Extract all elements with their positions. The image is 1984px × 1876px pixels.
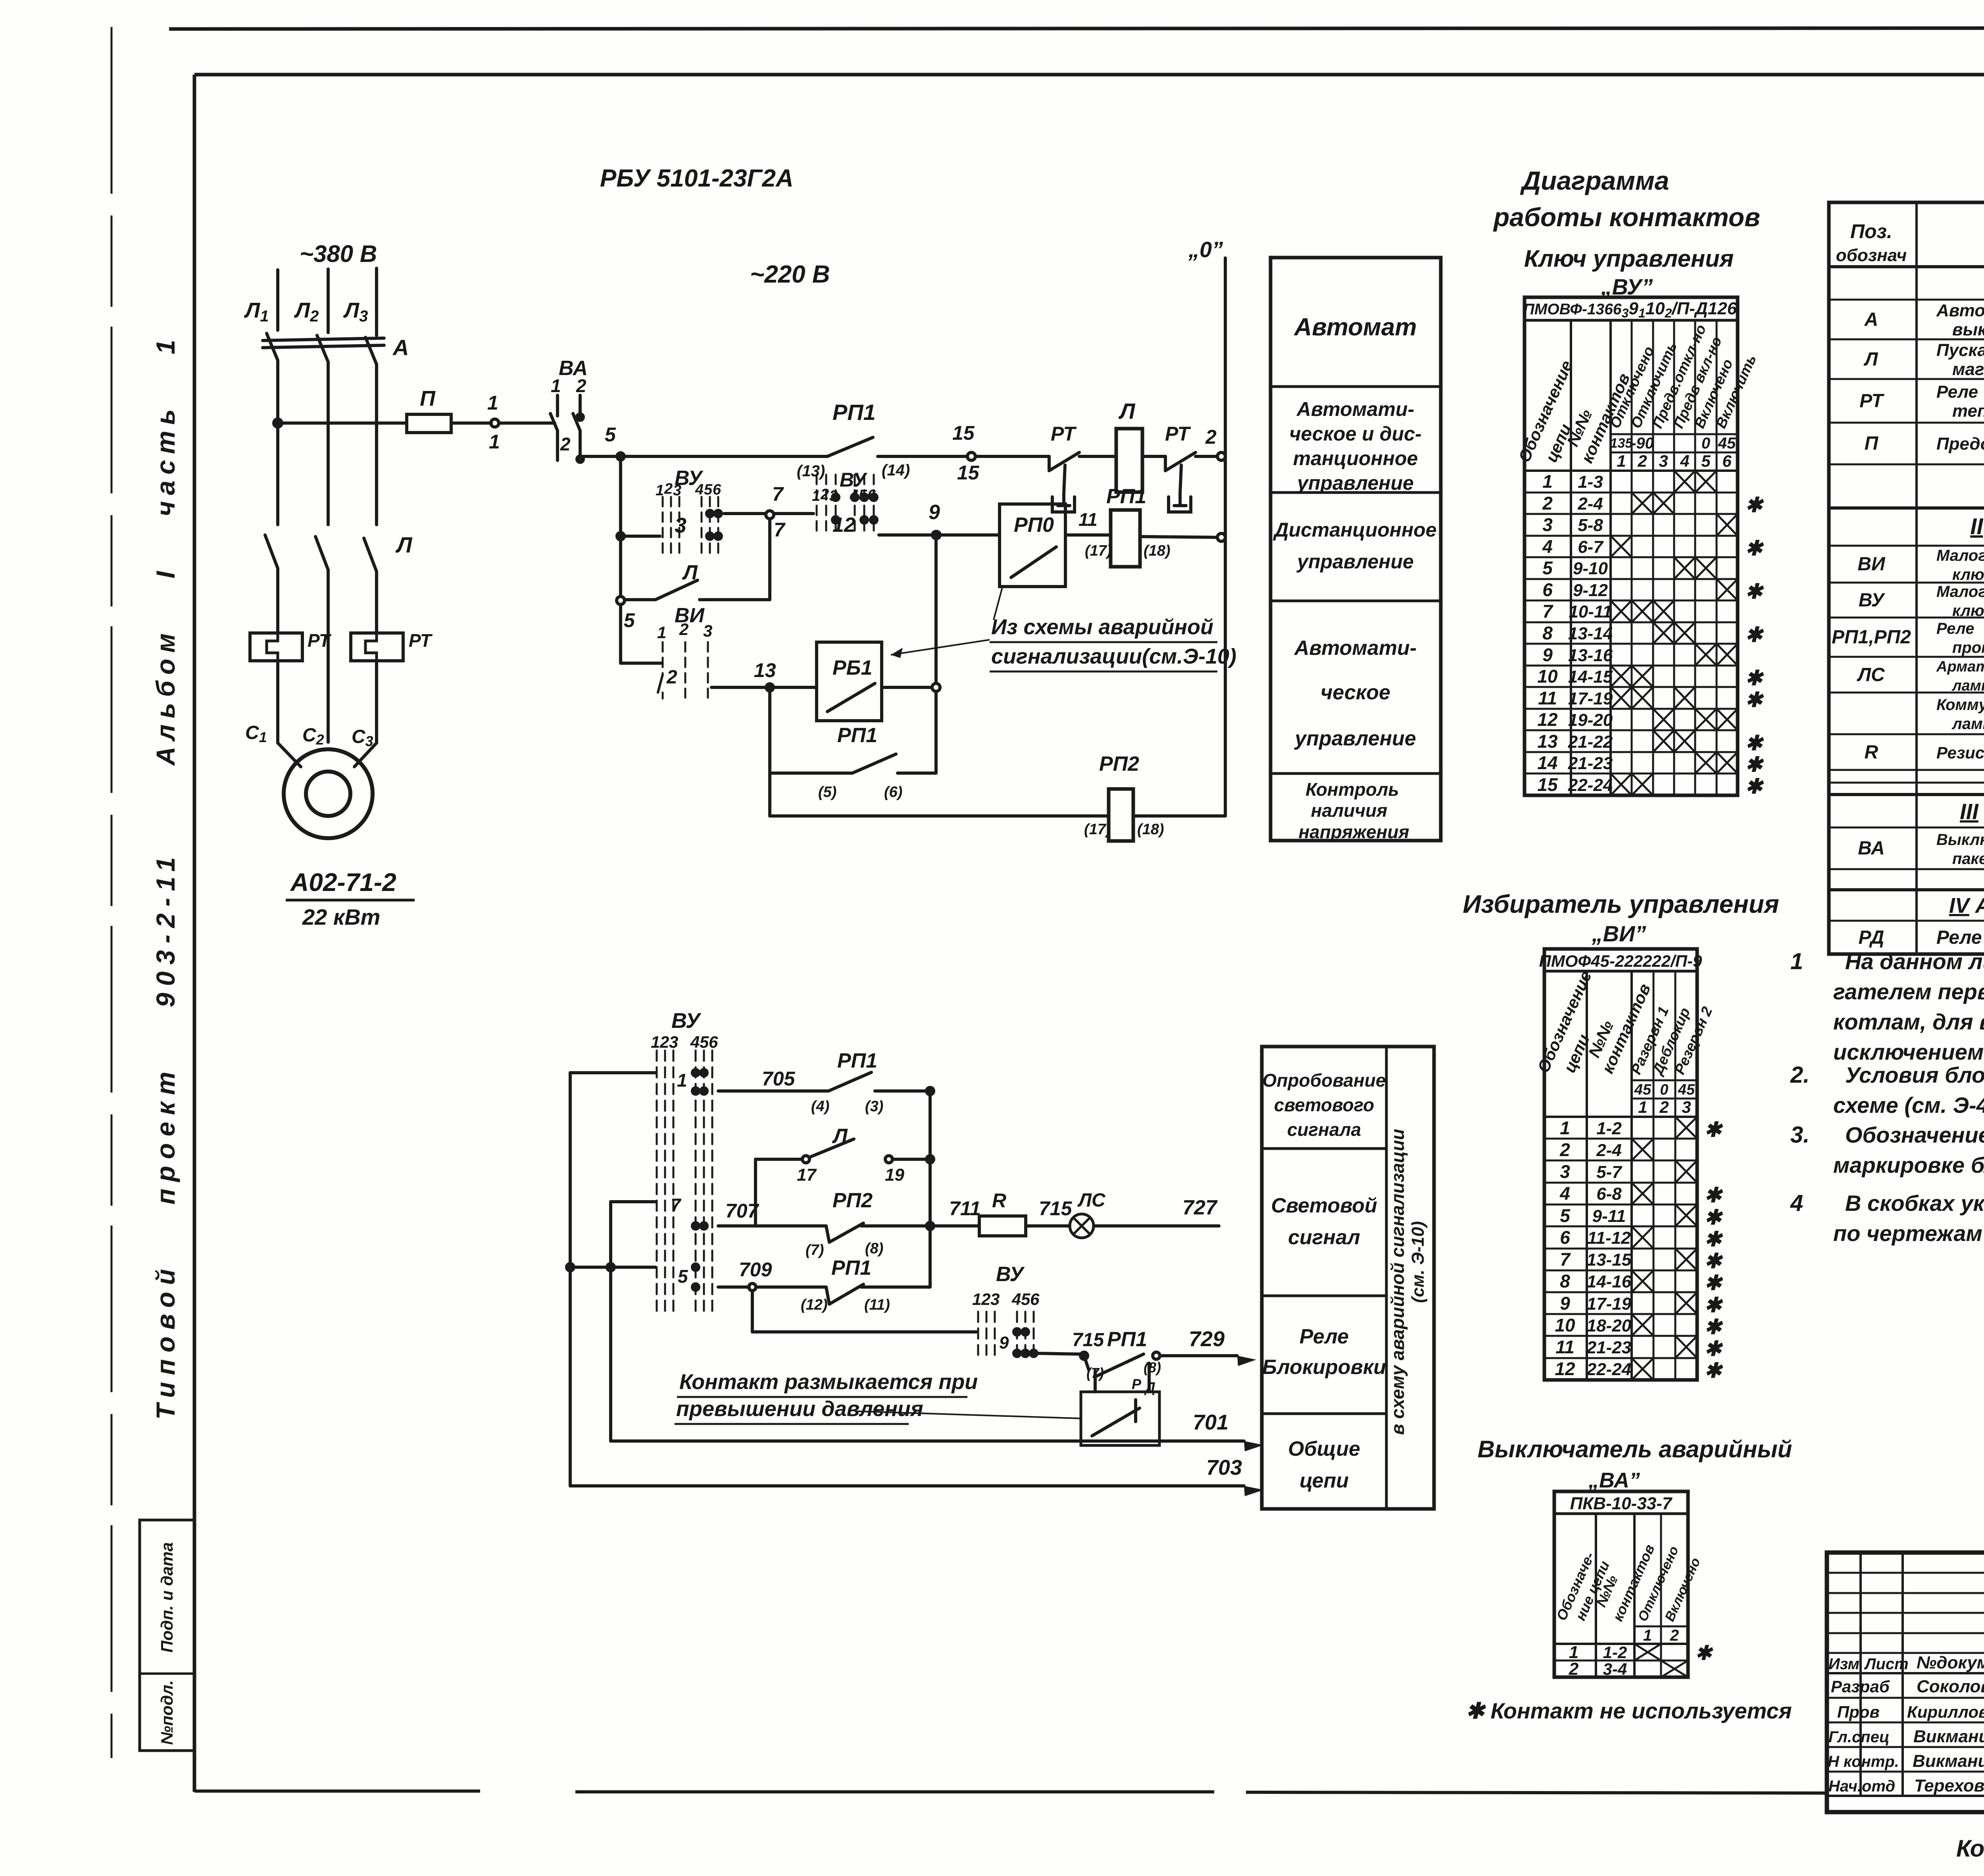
ВУ table frame (1525, 297, 1738, 795)
svg-text:R: R (1865, 742, 1878, 763)
svg-text:✱: ✱ (1745, 580, 1764, 603)
svg-text:Нач.отд: Нач.отд (1828, 1778, 1895, 1795)
svg-text:Терехов: Терехов (1914, 1776, 1984, 1795)
svg-text:✱: ✱ (1745, 623, 1764, 646)
svg-text:5: 5 (1542, 558, 1553, 578)
wire 707 row from ВУ (611, 1200, 656, 1203)
svg-text:3: 3 (990, 1290, 1000, 1308)
sheet inner frame left border (193, 75, 196, 1792)
svg-text:Р: Р (1132, 1376, 1142, 1392)
svg-text:6: 6 (1542, 579, 1553, 600)
svg-text:3: 3 (1560, 1161, 1570, 1182)
contactor coil Л (1116, 429, 1142, 492)
svg-text:Из схемы аварийной: Из схемы аварийной (991, 615, 1213, 639)
svg-text:3: 3 (703, 621, 712, 640)
svg-text:ПКВ-10-33-7: ПКВ-10-33-7 (1570, 1494, 1673, 1513)
svg-text:РБУ 5101-23Г2А: РБУ 5101-23Г2А (600, 165, 794, 192)
svg-text:703: 703 (1206, 1456, 1242, 1480)
wire 709 row from rail (570, 1266, 656, 1269)
svg-text:4: 4 (695, 481, 704, 498)
svg-text:Реле: Реле (1936, 382, 1978, 402)
svg-text:22-24: 22-24 (1586, 1360, 1632, 1379)
motor lead C3 (354, 743, 377, 767)
svg-text:Контроль: Контроль (1305, 779, 1399, 800)
svg-text:сигнала: сигнала (1287, 1119, 1361, 1140)
svg-text:21-22: 21-22 (1568, 732, 1613, 752)
svg-text:✱: ✱ (1704, 1272, 1723, 1295)
svg-text:управление: управление (1296, 472, 1414, 494)
phase bus Л3 (375, 268, 378, 335)
svg-text:5: 5 (605, 423, 616, 446)
selector ВИ contact group (663, 642, 708, 698)
svg-text:15: 15 (952, 422, 975, 444)
svg-text:(5): (5) (818, 784, 836, 800)
svg-text:(12): (12) (801, 1297, 828, 1313)
left control rail node 5 (617, 453, 624, 460)
svg-text:✱: ✱ (1704, 1228, 1723, 1251)
svg-text:Л: Л (1118, 398, 1136, 423)
svg-text:Общие: Общие (1288, 1437, 1360, 1460)
vertical node9 to РП1(5)(6) (934, 535, 938, 683)
svg-text:14-15: 14-15 (1568, 667, 1613, 687)
title block left sub-table verticals (1859, 1553, 1862, 1796)
sheet outer left dashed border (111, 27, 113, 1758)
svg-text:15: 15 (1537, 774, 1558, 795)
svg-text:19-20: 19-20 (1568, 710, 1613, 730)
svg-text:1: 1 (551, 375, 561, 396)
svg-text:11: 11 (1555, 1337, 1575, 1357)
svg-text:ВА: ВА (1858, 838, 1885, 859)
svg-text:45: 45 (1678, 1081, 1695, 1098)
svg-text:19: 19 (885, 1165, 904, 1185)
svg-text:РП1: РП1 (1106, 485, 1146, 508)
svg-text:танционное: танционное (1293, 447, 1418, 469)
inner vertical to 701 (609, 1202, 612, 1441)
contact Л self-holding (617, 596, 625, 604)
svg-text:2: 2 (560, 434, 571, 454)
svg-text:9: 9 (929, 501, 940, 524)
svg-text:Автомати-: Автомати- (1296, 398, 1414, 420)
svg-text:3: 3 (1659, 452, 1668, 470)
svg-text:✱: ✱ (1704, 1359, 1723, 1382)
key ВУ contact group (signal) (657, 1051, 712, 1314)
wire node7 to ВУ group 2 (774, 512, 813, 515)
svg-text:цепи: цепи (1300, 1469, 1349, 1492)
svg-text:45: 45 (1718, 435, 1736, 452)
svg-text:1: 1 (972, 1290, 981, 1308)
svg-text:✱: ✱ (1704, 1206, 1723, 1229)
wire to 727 (1094, 1224, 1219, 1228)
wire 705 row (718, 1089, 829, 1093)
svg-text:✱: ✱ (1745, 753, 1764, 776)
svg-text:5: 5 (624, 609, 635, 631)
svg-text:Условия блокировки даны в функ: Условия блокировки даны в функциональной (1845, 1062, 1984, 1087)
function label column (lower) (1262, 1047, 1434, 1509)
relay coil РП1 (1111, 510, 1140, 567)
svg-text:ВУ: ВУ (671, 1009, 702, 1033)
svg-text:3: 3 (1542, 514, 1553, 535)
svg-text:Л: Л (832, 1125, 848, 1148)
svg-text:Выключатель аварийный: Выключатель аварийный (1478, 1436, 1792, 1462)
svg-text:1: 1 (812, 488, 820, 504)
right rail 0 (1224, 258, 1227, 816)
pressure relay РД box (1081, 1392, 1159, 1445)
svg-text:Н контр.: Н контр. (1828, 1753, 1899, 1770)
svg-text:45: 45 (1634, 1081, 1651, 1098)
signal lamp ЛС (1070, 1214, 1094, 1238)
svg-text:Л: Л (395, 532, 413, 557)
svg-text:управление: управление (1294, 727, 1416, 750)
thermal contact РТ 2 (1164, 456, 1167, 471)
thermal relay РТ heater 2 (351, 633, 403, 661)
svg-text:Малогабаритный: Малогабаритный (1936, 583, 1984, 600)
svg-text:2: 2 (981, 1290, 990, 1308)
svg-text:В скобках указаны номера конта: В скобках указаны номера контактов реле (1845, 1191, 1984, 1216)
svg-text:10-11: 10-11 (1569, 602, 1612, 621)
svg-text:3: 3 (673, 482, 681, 499)
phase bus Л1 (276, 270, 279, 330)
svg-text:Автомат: Автомат (1293, 314, 1417, 341)
svg-text:5: 5 (700, 1033, 709, 1051)
svg-text:6: 6 (1560, 1227, 1570, 1248)
circuit breaker A blades (267, 333, 278, 360)
svg-text:13-16: 13-16 (1568, 646, 1613, 665)
svg-text:РП1: РП1 (831, 1256, 871, 1280)
svg-text:4: 4 (1011, 1290, 1021, 1308)
svg-text:1-2: 1-2 (1603, 1643, 1627, 1662)
svg-text:А: А (1864, 309, 1878, 330)
svg-text:сигнализации(см.Э-10): сигнализации(см.Э-10) (991, 645, 1236, 668)
svg-text:РД: РД (1859, 927, 1884, 948)
svg-text:7: 7 (774, 519, 786, 541)
svg-text:обознач: обознач (1836, 246, 1907, 265)
left margin inventory box (140, 1520, 194, 1751)
svg-text:(18): (18) (1137, 821, 1164, 838)
junction vertical (929, 1091, 932, 1287)
svg-text:Реле: Реле (1300, 1325, 1349, 1348)
svg-text:РТ: РТ (409, 630, 433, 651)
svg-text:10: 10 (1537, 666, 1558, 687)
svg-text:715: 715 (1072, 1330, 1104, 1351)
svg-text:5: 5 (859, 487, 867, 504)
svg-text:РП1,РП2: РП1,РП2 (1832, 627, 1911, 648)
svg-text:9: 9 (1560, 1293, 1570, 1314)
svg-text:маркировке блока управления.: маркировке блока управления. (1833, 1153, 1984, 1178)
svg-text:5: 5 (1701, 452, 1711, 470)
svg-text:светового: светового (1274, 1095, 1374, 1115)
svg-text:2: 2 (1559, 1139, 1570, 1160)
svg-text:18-20: 18-20 (1587, 1316, 1632, 1335)
svg-text:по чертежам КИП: по чертежам КИП (1833, 1221, 1984, 1246)
svg-text:✱: ✱ (1745, 775, 1764, 798)
rail to ВИ branch (619, 604, 622, 663)
svg-text:22 кВт: 22 кВт (302, 904, 380, 929)
bottom schematic left rail (569, 1073, 572, 1486)
svg-text:Пускатель: Пускатель (1936, 341, 1984, 360)
svg-text:сигнал: сигнал (1288, 1226, 1360, 1249)
svg-text:1: 1 (1643, 1627, 1652, 1644)
wire РТ to motor (276, 661, 279, 743)
svg-text:Викманис: Викманис (1913, 1751, 1984, 1771)
svg-text:8: 8 (1542, 623, 1553, 643)
wire 701 (611, 1439, 1244, 1443)
svg-text:15: 15 (957, 462, 980, 484)
svg-text:Контакт размыкается при: Контакт размыкается при (679, 1370, 978, 1394)
wire to node 7 (724, 512, 766, 515)
svg-text:9: 9 (1542, 645, 1553, 665)
svg-text:1: 1 (1617, 452, 1626, 470)
key ВУ contact group 2 (817, 475, 874, 535)
svg-text:7: 7 (1560, 1249, 1571, 1270)
svg-text:Коммутаторная: Коммутаторная (1936, 696, 1984, 714)
resistor R (979, 1216, 1026, 1236)
svg-text:11: 11 (1079, 509, 1098, 530)
svg-text:(8): (8) (1144, 1359, 1161, 1376)
svg-text:магнитный: магнитный (1952, 360, 1984, 379)
svg-text:7: 7 (671, 1195, 682, 1215)
svg-text:А02-71-2: А02-71-2 (290, 868, 396, 897)
motor M outer circle (284, 749, 373, 838)
svg-text:(17): (17) (1085, 543, 1112, 559)
svg-text:РП1: РП1 (832, 400, 876, 425)
svg-text:На данном листе дана схема упр: На данном листе дана схема управления эл… (1845, 949, 1984, 974)
svg-text:в схему аварийной сигнализации: в схему аварийной сигнализации (1387, 1129, 1408, 1435)
svg-text:1: 1 (1542, 471, 1553, 492)
svg-text:4: 4 (1559, 1183, 1570, 1204)
svg-text:ЛС: ЛС (1077, 1190, 1106, 1211)
svg-text:21-23: 21-23 (1586, 1338, 1632, 1357)
svg-text:РТ: РТ (1165, 423, 1191, 445)
svg-text:(17): (17) (1084, 821, 1111, 838)
contact Л (17)(19) (754, 1159, 757, 1226)
svg-text:„ВА”: „ВА” (1588, 1468, 1640, 1492)
contact РП1 (5)(6) (768, 687, 771, 773)
wire top corner to ВУ (570, 1071, 656, 1074)
svg-text:17-19: 17-19 (1587, 1294, 1632, 1314)
svg-text:5-7: 5-7 (1596, 1162, 1623, 1182)
svg-text:РТ: РТ (1859, 391, 1884, 412)
svg-text:1: 1 (1638, 1098, 1647, 1116)
svg-text:5: 5 (1021, 1290, 1030, 1308)
wire to РП1 (7)(8) pressure branch (1038, 1353, 1081, 1354)
svg-text:2: 2 (1569, 1659, 1579, 1679)
thermal relay РТ heater 1 (250, 633, 302, 661)
svg-text:(см. Э-10): (см. Э-10) (1408, 1221, 1428, 1303)
wire Л2 breaker to contactor (327, 362, 330, 525)
ВИ table frame (1544, 949, 1697, 1380)
svg-text:2: 2 (666, 667, 677, 688)
svg-text:(8): (8) (865, 1240, 883, 1257)
relay box РП0 (1000, 504, 1065, 587)
svg-text:2: 2 (1205, 426, 1217, 448)
wire to node 9 (879, 533, 933, 537)
svg-text:6: 6 (709, 1033, 718, 1051)
svg-text:Арматура коммутаторной: Арматура коммутаторной (1936, 658, 1984, 675)
svg-text:ческое и дис-: ческое и дис- (1289, 423, 1421, 445)
svg-text:✱: ✱ (1704, 1250, 1723, 1273)
svg-text:709: 709 (739, 1258, 772, 1281)
svg-text:(11): (11) (864, 1297, 890, 1313)
svg-text:135: 135 (1610, 436, 1633, 451)
svg-text:9-11: 9-11 (1592, 1206, 1626, 1226)
svg-text:1: 1 (1790, 949, 1803, 974)
svg-text:2-4: 2-4 (1596, 1141, 1622, 1160)
feeder tap wire to fuse (278, 421, 407, 425)
svg-text:Типовой проект 903-2-11: Типовой проект 903-2-11 (151, 850, 180, 1420)
svg-text:(7): (7) (806, 1242, 824, 1258)
svg-text:ческое: ческое (1321, 681, 1390, 704)
circuit breaker A bar (263, 338, 384, 341)
svg-text:0: 0 (1701, 435, 1710, 452)
svg-text:6-7: 6-7 (1578, 537, 1604, 557)
svg-text:3: 3 (669, 1033, 678, 1051)
svg-text:4: 4 (1680, 452, 1689, 470)
svg-text:Предохранитель: Предохранитель (1936, 434, 1984, 454)
svg-text:2.: 2. (1790, 1062, 1809, 1088)
svg-text:✱: ✱ (1704, 1294, 1723, 1317)
svg-text:Реле: Реле (1936, 620, 1974, 637)
svg-text:14: 14 (1537, 752, 1557, 773)
key ВУ contact group (blocking) (978, 1312, 1034, 1355)
svg-text:РТ: РТ (308, 630, 332, 651)
svg-text:9-12: 9-12 (1573, 581, 1608, 600)
svg-text:✱: ✱ (1704, 1316, 1723, 1339)
wire ВА to node 5 (580, 455, 621, 458)
svg-text:17-19: 17-19 (1568, 689, 1613, 708)
svg-text:ЛС: ЛС (1857, 664, 1885, 685)
svg-text:П: П (1865, 433, 1879, 454)
svg-text:12: 12 (1537, 709, 1558, 730)
sheet inner frame bottom line (194, 1789, 480, 1793)
svg-text:0: 0 (1660, 1081, 1668, 1098)
svg-text:Малогабаритный: Малогабаритный (1936, 547, 1984, 564)
svg-text:✱: ✱ (1745, 732, 1764, 755)
arrows (1237, 1356, 1256, 1366)
svg-text:6: 6 (1722, 452, 1732, 470)
svg-text:(7): (7) (1086, 1365, 1104, 1381)
branch down from node 709 (751, 1291, 754, 1332)
svg-text:Ключ управления: Ключ управления (1524, 245, 1734, 272)
svg-text:3: 3 (1682, 1098, 1691, 1116)
svg-text:№подл.: №подл. (158, 1680, 176, 1745)
svg-text:(18): (18) (1144, 543, 1171, 559)
sheet inner frame top line (194, 73, 1984, 77)
wire 703 (570, 1484, 1244, 1487)
svg-text:А: А (392, 335, 409, 360)
svg-text:2: 2 (1659, 1098, 1669, 1116)
wire to resistor R (930, 1224, 979, 1228)
svg-text:17: 17 (797, 1165, 817, 1185)
svg-text:1: 1 (489, 431, 500, 453)
title block left sub-table rows (1827, 1572, 1984, 1574)
svg-text:(13): (13) (797, 462, 825, 480)
svg-text:Поз.: Поз. (1850, 220, 1892, 242)
contact РП1 (12)(11) (826, 1287, 829, 1304)
svg-text:4: 4 (850, 487, 858, 504)
svg-text:727: 727 (1182, 1196, 1218, 1219)
svg-text:Выключатель ПКВ10-33-7: Выключатель ПКВ10-33-7 (1936, 831, 1984, 849)
svg-text:Лист: Лист (1864, 1655, 1909, 1673)
svg-text:РП1: РП1 (1107, 1328, 1147, 1351)
svg-text:„ВИ”: „ВИ” (1592, 921, 1646, 946)
fuse П (407, 414, 451, 433)
motor lead C1 (278, 743, 301, 767)
svg-text:Световой: Световой (1271, 1194, 1377, 1217)
svg-text:3: 3 (829, 488, 838, 504)
svg-text:9: 9 (999, 1333, 1009, 1353)
svg-text:711: 711 (949, 1197, 981, 1220)
svg-text:2: 2 (576, 375, 586, 396)
ВА table frame (1554, 1491, 1688, 1677)
svg-text:2: 2 (1542, 493, 1553, 514)
svg-text:исключением номера цепи ключа: исключением номера цепи ключа „ВИ” (см. … (1833, 1039, 1984, 1064)
svg-text:4: 4 (690, 1033, 700, 1051)
svg-text:13: 13 (754, 659, 776, 681)
svg-text:13-15: 13-15 (1587, 1250, 1632, 1270)
svg-text:ВУ: ВУ (996, 1263, 1025, 1286)
svg-text:707: 707 (725, 1200, 759, 1222)
svg-text:6: 6 (867, 487, 876, 504)
svg-text:1: 1 (657, 623, 666, 642)
svg-text:Д: Д (1144, 1379, 1155, 1395)
svg-text:1: 1 (677, 1070, 687, 1091)
svg-text:тепловое: тепловое (1952, 401, 1984, 421)
svg-text:3.: 3. (1790, 1122, 1809, 1148)
wire Л3 breaker to contactor (375, 364, 378, 525)
svg-text:12: 12 (1555, 1358, 1575, 1379)
svg-text:14-16: 14-16 (1587, 1272, 1632, 1291)
svg-text:Автоматический: Автоматический (1936, 301, 1984, 320)
svg-text:ΙΙ Аппараты на щите КИП: ΙΙ Аппараты на щите КИП (1970, 514, 1984, 539)
svg-text:(6): (6) (884, 784, 902, 800)
svg-text:Пров: Пров (1837, 1703, 1880, 1721)
svg-text:выключатель: выключатель (1952, 320, 1984, 339)
svg-text:22-24: 22-24 (1568, 775, 1613, 795)
wire contactor to thermal РТ (276, 568, 279, 632)
svg-text:2: 2 (679, 620, 688, 639)
svg-text:729: 729 (1189, 1327, 1225, 1351)
node 15 (967, 452, 975, 460)
svg-text:пакетно-кулачковый ~380В,10А: пакетно-кулачковый ~380В,10А (1952, 850, 1984, 868)
svg-text:R: R (992, 1189, 1006, 1212)
svg-text:ΙΙΙ Аппараты у электродвигател: ΙΙΙ Аппараты у электродвигателя (1960, 799, 1984, 824)
svg-text:РП2: РП2 (1099, 752, 1139, 775)
svg-text:ключ: ключ (1952, 566, 1984, 583)
svg-text:-90: -90 (1631, 435, 1654, 452)
svg-text:8: 8 (1560, 1271, 1570, 1291)
svg-text:схеме (см. Э-4).: схеме (см. Э-4). (1833, 1093, 1984, 1118)
svg-text:10: 10 (1555, 1315, 1575, 1335)
svg-text:~380 В: ~380 В (300, 241, 377, 267)
element list frame (1829, 202, 1984, 954)
callout leader lines (994, 587, 1002, 620)
svg-text:1: 1 (651, 1033, 660, 1051)
wire 709 row (718, 1285, 749, 1289)
svg-text:1-3: 1-3 (1578, 472, 1603, 492)
svg-text:ВИ: ВИ (1857, 554, 1886, 575)
wire row1 to РП1 contact (621, 455, 827, 458)
svg-text:11: 11 (1538, 688, 1557, 708)
svg-text:7: 7 (772, 483, 784, 505)
svg-text:✱: ✱ (1704, 1184, 1723, 1207)
svg-text:гателем первого насоса подачи: гателем первого насоса подачи мазута к в… (1833, 979, 1984, 1004)
svg-text:Подп. и дата: Подп. и дата (158, 1542, 176, 1653)
svg-text:Л: Л (682, 561, 698, 584)
svg-text:ПМОФ45-222222/П-9: ПМОФ45-222222/П-9 (1539, 952, 1702, 970)
svg-text:напряжения: напряжения (1298, 822, 1409, 842)
svg-text:✱ Контакт не используется: ✱ Контакт не используется (1466, 1698, 1792, 1723)
svg-text:(3): (3) (865, 1098, 883, 1115)
